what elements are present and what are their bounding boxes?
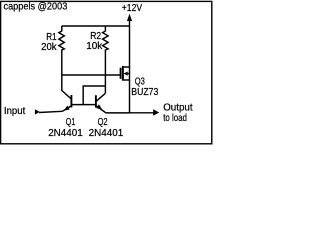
output arrowhead <box>153 109 159 116</box>
svg-text:2N4401: 2N4401 <box>48 128 83 139</box>
svg-text:Q3: Q3 <box>135 76 145 87</box>
svg-text:+12V: +12V <box>122 3 142 14</box>
resistor R2 <box>103 26 109 93</box>
wire gate node (R1 bottom to Q3 gate) <box>62 74 120 76</box>
wire input <box>39 111 62 112</box>
border frame (decorative) <box>1 1 212 143</box>
svg-text:Output: Output <box>163 102 193 113</box>
transistor Q1 <box>62 91 72 112</box>
wire drain (Q3 to +12V rail) <box>129 26 131 67</box>
wire source (Q3 to output line) <box>129 80 131 113</box>
svg-text:2N4401: 2N4401 <box>89 128 124 139</box>
svg-text:20k: 20k <box>41 42 57 53</box>
svg-text:BUZ73: BUZ73 <box>131 87 158 98</box>
output arrow wire <box>130 112 155 114</box>
svg-text:Q1: Q1 <box>66 117 76 128</box>
svg-text:cappels @2003: cappels @2003 <box>4 2 68 13</box>
wire Q1-Q2 base tie <box>71 104 95 106</box>
svg-text:Q2: Q2 <box>98 117 108 128</box>
svg-text:10k: 10k <box>86 41 103 52</box>
transistor Q2 <box>96 93 106 113</box>
mosfet Q3 <box>121 66 130 81</box>
wire output node (Q2 emitter to Q3 source) <box>106 112 130 114</box>
wire +12V rail <box>62 25 130 27</box>
svg-text:Input: Input <box>4 106 26 117</box>
input arrow <box>35 109 40 114</box>
svg-text:to load: to load <box>163 113 187 124</box>
resistor R1 <box>59 26 64 91</box>
power +12V arrow symbol <box>129 18 131 26</box>
wire base node to R2/Q2 collector node <box>83 86 105 105</box>
